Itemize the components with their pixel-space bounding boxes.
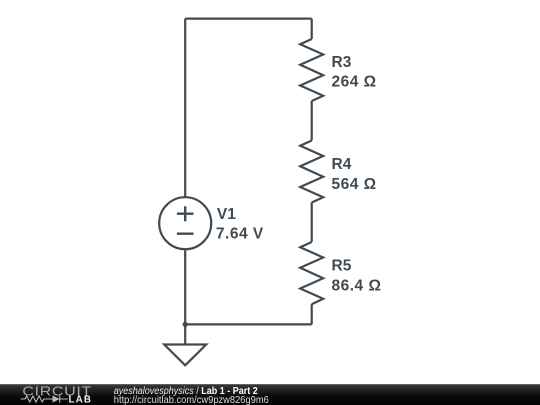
svg-text:R4: R4 [332, 156, 352, 173]
wire right vertical to R3 [311, 19, 313, 39]
wire top horizontal [185, 18, 312, 20]
wire R4 to R5 [311, 203, 313, 243]
V1 minus sign [177, 232, 194, 234]
svg-text:564 Ω: 564 Ω [332, 176, 377, 193]
svg-text:264 Ω: 264 Ω [332, 74, 377, 91]
svg-text:LAB: LAB [69, 395, 93, 405]
V1 plus sign [177, 206, 194, 221]
svg-text:V1: V1 [217, 206, 236, 223]
CircuitLab logo circuit glyph (resistor + diode) [21, 395, 68, 402]
resistor R4 [300, 141, 323, 203]
wire V1 minus to bottom node [184, 249, 186, 324]
svg-text:http://circuitlab.com/cw9pzw82: http://circuitlab.com/cw9pzw826g9m6 [114, 395, 270, 405]
wire bottom horizontal [185, 323, 312, 325]
svg-text:R5: R5 [332, 257, 352, 274]
ground stub wire [184, 324, 186, 344]
bottom node junction dot [183, 322, 188, 327]
wire left vertical (top node to V1 plus) [184, 19, 186, 198]
svg-text:86.4 Ω: 86.4 Ω [332, 277, 382, 294]
voltage source V1 circle [159, 197, 211, 249]
wire R5 to bottom node [311, 304, 313, 324]
svg-text:7.64 V: 7.64 V [216, 226, 264, 243]
footer bar [0, 384, 540, 405]
ground symbol [164, 345, 206, 366]
svg-text:R3: R3 [332, 54, 352, 71]
resistor R5 [300, 242, 323, 304]
wire R3 to R4 [311, 101, 313, 141]
resistor R3 [300, 39, 323, 101]
